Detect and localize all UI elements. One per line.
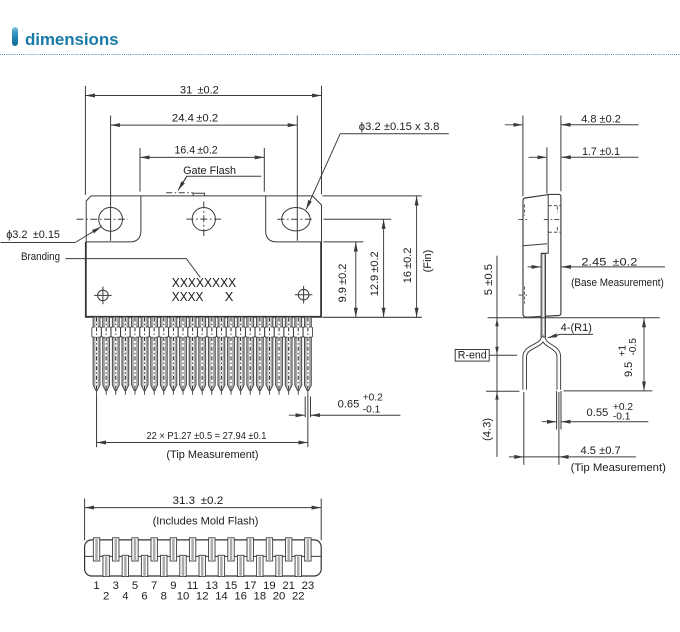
side view: body outline bbox=[523, 194, 561, 317]
svg-text:0.55: 0.55 bbox=[587, 407, 609, 419]
svg-text:Branding: Branding bbox=[21, 251, 60, 263]
svg-text:ϕ3.2 ±0.15 x 3.8: ϕ3.2 ±0.15 x 3.8 bbox=[359, 121, 440, 133]
svg-text:1.7 ±0.1: 1.7 ±0.1 bbox=[582, 146, 620, 158]
svg-text:(Base Measurement): (Base Measurement) bbox=[571, 277, 664, 289]
dimension 22 x P1.27 (tip measurement) bbox=[97, 430, 308, 461]
svg-text:(Tip Measurement): (Tip Measurement) bbox=[166, 449, 258, 461]
label phi3.2 +/-0.15 with leader bbox=[1, 227, 102, 243]
svg-text:2: 2 bbox=[103, 591, 109, 603]
svg-text:X: X bbox=[225, 289, 234, 304]
svg-text:(Tip Measurement): (Tip Measurement) bbox=[571, 462, 666, 474]
dimension 9.5 +1/-0.5 bbox=[617, 318, 644, 391]
front view: left mounting ear bbox=[86, 196, 141, 242]
bottom view: even pin numbers bbox=[103, 591, 305, 603]
svg-text:14: 14 bbox=[215, 591, 228, 603]
svg-text:+0.2: +0.2 bbox=[363, 393, 383, 404]
dimension 4.5 +/-0.7 (tip measurement) bbox=[509, 392, 666, 474]
svg-text:6: 6 bbox=[141, 591, 147, 603]
svg-text:+1: +1 bbox=[617, 345, 628, 357]
svg-text:Gate Flash: Gate Flash bbox=[183, 165, 236, 177]
front view: right mounting ear bbox=[266, 196, 322, 242]
bottom view: dimension 31.3 +/-0.2 bbox=[85, 495, 322, 540]
dimension 0.65 +0.2/-0.1 (lead width) bbox=[289, 393, 401, 416]
svg-text:9.9 ±0.2: 9.9 ±0.2 bbox=[337, 264, 349, 303]
svg-text:0.65: 0.65 bbox=[338, 398, 360, 410]
svg-text:2.45 ±0.2: 2.45 ±0.2 bbox=[581, 256, 637, 268]
front view: left ejector mark bbox=[94, 287, 112, 305]
svg-text:4: 4 bbox=[122, 591, 128, 603]
dimension 12.9 +/-0.2 bbox=[369, 219, 383, 317]
bottom view: odd pin numbers bbox=[93, 580, 314, 592]
label phi3.2 x 3.8 with leader bbox=[306, 121, 449, 210]
svg-text:(Fin): (Fin) bbox=[422, 250, 434, 273]
svg-text:XXXX: XXXX bbox=[172, 289, 204, 304]
label R-end bbox=[455, 349, 517, 361]
svg-text:4.5 ±0.7: 4.5 ±0.7 bbox=[581, 445, 621, 457]
front view: left mounting hole ϕ3.2 bbox=[77, 207, 128, 231]
svg-text:4.8 ±0.2: 4.8 ±0.2 bbox=[581, 113, 621, 125]
svg-text:ϕ3.2 ±0.15: ϕ3.2 ±0.15 bbox=[6, 229, 60, 241]
dimension 16.4 +/-0.2 bbox=[140, 145, 264, 192]
bottom view: body outline bbox=[85, 540, 322, 576]
front view: 23 leads bbox=[92, 317, 313, 395]
label 4-(R1) bbox=[548, 322, 593, 338]
extension lines right of front view bbox=[323, 196, 422, 317]
extension lines at pin 23 bbox=[305, 395, 310, 447]
front view: mold body outline bbox=[86, 242, 321, 317]
svg-text:20: 20 bbox=[273, 591, 286, 603]
svg-text:4-(R1): 4-(R1) bbox=[561, 322, 592, 334]
svg-text:7: 7 bbox=[151, 580, 157, 592]
svg-text:5: 5 bbox=[132, 580, 138, 592]
svg-text:-0.1: -0.1 bbox=[363, 404, 381, 415]
svg-text:31.3 ±0.2: 31.3 ±0.2 bbox=[173, 495, 224, 507]
svg-text:10: 10 bbox=[177, 591, 190, 603]
svg-text:18: 18 bbox=[254, 591, 267, 603]
svg-text:16: 16 bbox=[234, 591, 247, 603]
dimension 4.8 +/-0.2 bbox=[505, 113, 639, 196]
dimension 2.45 (base measurement) bbox=[528, 256, 665, 289]
side view: hidden hole lines bbox=[544, 206, 561, 233]
svg-text:5 ±0.5: 5 ±0.5 bbox=[483, 264, 495, 295]
front view: right ejector mark bbox=[295, 286, 313, 304]
dimension 1.7 +/-0.1 bbox=[529, 146, 639, 193]
header section icon bbox=[12, 27, 18, 46]
side view: body-bottom reference line bbox=[488, 317, 660, 319]
side view: lead-tip reference lines bbox=[486, 390, 652, 392]
front view: fin outline (top) bbox=[86, 196, 321, 243]
bottom view: odd lead stubs bbox=[93, 538, 311, 561]
label Branding with leader bbox=[21, 251, 200, 278]
svg-text:XXXXXXXX: XXXXXXXX bbox=[172, 275, 237, 290]
svg-text:9: 9 bbox=[170, 580, 176, 592]
side view: lead fork branches bbox=[525, 331, 559, 390]
header dotted rule bbox=[0, 54, 680, 55]
dimension 5 +/-0.5 and (4.3) dim line bbox=[481, 256, 498, 457]
header title bbox=[25, 30, 118, 50]
svg-text:-0.1: -0.1 bbox=[613, 412, 631, 423]
svg-text:9.5: 9.5 bbox=[623, 362, 635, 377]
svg-text:(Includes Mold Flash): (Includes Mold Flash) bbox=[153, 516, 259, 528]
svg-text:16 ±0.2: 16 ±0.2 bbox=[402, 248, 414, 284]
svg-text:R-end: R-end bbox=[458, 349, 487, 361]
side view: left edge center marks bbox=[519, 205, 528, 304]
dimension 9.9 +/-0.2 bbox=[337, 242, 356, 317]
svg-text:3: 3 bbox=[113, 580, 119, 592]
bottom view: even lead stubs bbox=[103, 555, 301, 576]
dimension 0.55 +0.2/-0.1 bbox=[542, 391, 648, 430]
dimension 24.4 +/-0.2 bbox=[111, 113, 298, 241]
svg-text:(4.3): (4.3) bbox=[481, 418, 493, 441]
side view: fin front face with step bbox=[541, 195, 548, 254]
svg-text:1: 1 bbox=[93, 580, 99, 592]
svg-text:12.9 ±0.2: 12.9 ±0.2 bbox=[369, 251, 381, 296]
front view: branding text XXXXXXXX bbox=[172, 275, 237, 304]
dimension 16 +/-0.2 (Fin) bbox=[402, 196, 434, 317]
svg-text:16.4 ±0.2: 16.4 ±0.2 bbox=[175, 145, 218, 157]
svg-text:22 × P1.27 ±0.5 = 27.94 ±0.1: 22 × P1.27 ±0.5 = 27.94 ±0.1 bbox=[147, 430, 267, 442]
svg-text:24.4 ±0.2: 24.4 ±0.2 bbox=[172, 113, 218, 125]
svg-text:22: 22 bbox=[292, 591, 305, 603]
side view: boss step line bbox=[523, 244, 547, 246]
side view: lead stem bbox=[541, 254, 545, 337]
svg-text:31 ±0.2: 31 ±0.2 bbox=[180, 84, 219, 96]
extension line from pin 1 tip bbox=[96, 395, 98, 447]
label Gate Flash bbox=[178, 165, 261, 191]
front view: gate flash mark bbox=[166, 193, 204, 196]
svg-text:8: 8 bbox=[161, 591, 167, 603]
front view: center hole bbox=[187, 202, 222, 238]
svg-text:12: 12 bbox=[196, 591, 209, 603]
front view: right slotted hole ϕ3.2x3.8 bbox=[277, 208, 314, 231]
dimension 31 +/-0.2 bbox=[85, 84, 321, 195]
svg-text:-0.5: -0.5 bbox=[628, 338, 639, 356]
